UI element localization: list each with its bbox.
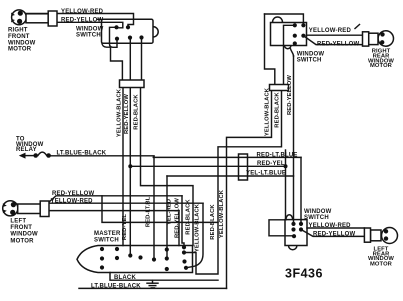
svg-text:YELLOW-BLACK: YELLOW-BLACK	[265, 87, 271, 136]
svg-text:SWITCH: SWITCH	[94, 238, 119, 244]
svg-text:LT.BLUE-BLACK: LT.BLUE-BLACK	[91, 284, 141, 290]
svg-text:MOTOR: MOTOR	[8, 47, 32, 53]
svg-text:YELLOW-BLACK: YELLOW-BLACK	[195, 203, 201, 252]
svg-text:RED-YEL: RED-YEL	[257, 161, 285, 167]
svg-text:YELLOW-BLACK: YELLOW-BLACK	[117, 88, 123, 137]
svg-text:RED-BLACK: RED-BLACK	[210, 204, 216, 240]
svg-text:MOTOR: MOTOR	[370, 63, 393, 69]
svg-text:YEL-RED: YEL-RED	[167, 199, 173, 225]
svg-text:RED-LT.BL.: RED-LT.BL.	[146, 195, 152, 227]
svg-text:YELLOW-RED: YELLOW-RED	[309, 28, 352, 34]
svg-text:RED-YELLOW: RED-YELLOW	[52, 191, 94, 197]
svg-text:RED-YELLOW: RED-YELLOW	[317, 41, 359, 47]
svg-text:BLACK: BLACK	[114, 275, 136, 281]
svg-text:RED-YELLOW: RED-YELLOW	[124, 94, 130, 134]
svg-text:MOTOR: MOTOR	[10, 238, 34, 244]
svg-text:YEL-LT.BLUE: YEL-LT.BLUE	[246, 171, 286, 177]
svg-text:SWITCH: SWITCH	[304, 215, 329, 221]
svg-text:FRONT: FRONT	[8, 34, 30, 40]
svg-text:RED-YELLOW: RED-YELLOW	[175, 198, 181, 238]
svg-text:3F436: 3F436	[285, 267, 323, 281]
svg-text:RED-YEL: RED-YEL	[122, 214, 128, 241]
svg-text:RIGHT: RIGHT	[8, 28, 28, 34]
svg-text:RED-BLACK: RED-BLACK	[186, 199, 192, 235]
svg-text:SWITCH: SWITCH	[76, 32, 101, 38]
svg-text:YELLOW-RED: YELLOW-RED	[61, 9, 104, 15]
svg-text:YELLOW-RED: YELLOW-RED	[309, 223, 352, 229]
svg-text:YELLOW-BLACK: YELLOW-BLACK	[219, 189, 225, 238]
svg-text:LT.BLUE-BLACK: LT.BLUE-BLACK	[57, 150, 107, 156]
svg-text:WINDOW: WINDOW	[10, 232, 38, 238]
svg-text:WINDOW: WINDOW	[297, 51, 325, 57]
svg-text:LEFT: LEFT	[10, 219, 26, 225]
svg-text:RED-YELLOW: RED-YELLOW	[61, 18, 103, 24]
svg-text:RED-YELLOW: RED-YELLOW	[287, 75, 293, 115]
svg-text:WINDOW: WINDOW	[8, 40, 36, 46]
svg-text:MOTOR: MOTOR	[370, 261, 393, 267]
svg-text:FRONT: FRONT	[10, 225, 32, 231]
svg-text:RED-BLACK: RED-BLACK	[275, 92, 281, 128]
svg-text:MASTER: MASTER	[94, 231, 121, 237]
svg-text:RED-YELLOW: RED-YELLOW	[313, 232, 355, 238]
svg-text:RED-LT.BLUE: RED-LT.BLUE	[257, 152, 298, 158]
svg-text:RED-BLACK: RED-BLACK	[134, 94, 140, 130]
svg-text:RELAY: RELAY	[16, 147, 37, 153]
svg-text:SWITCH: SWITCH	[297, 57, 322, 63]
svg-text:YELLOW-RED: YELLOW-RED	[51, 198, 94, 204]
